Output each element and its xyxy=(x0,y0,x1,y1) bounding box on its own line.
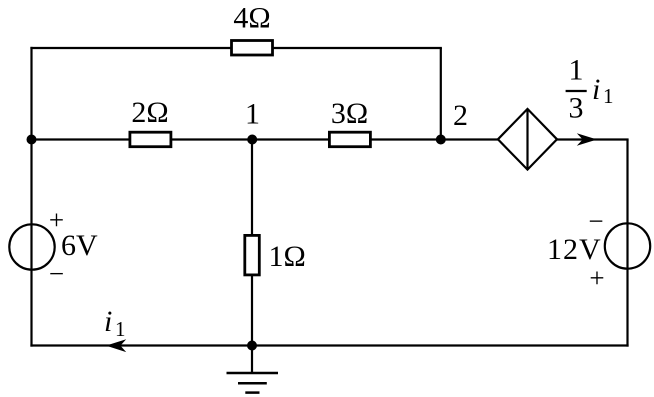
svg-text:1: 1 xyxy=(569,54,584,87)
node ground junction dot xyxy=(247,341,257,351)
wire: diamond output to right corner xyxy=(556,138,629,140)
voltage source 6V circle xyxy=(9,224,54,269)
svg-text:−: − xyxy=(49,259,64,289)
wire: left vertical xyxy=(30,47,32,347)
node 2 dot xyxy=(436,135,446,145)
svg-text:i: i xyxy=(104,305,112,338)
ground bar 1 xyxy=(227,372,279,375)
svg-text:1Ω: 1Ω xyxy=(269,240,306,273)
wire: through 6V source xyxy=(30,224,32,269)
voltage source 12V circle xyxy=(605,223,650,268)
arrow: dependent source current direction xyxy=(577,133,597,145)
label fraction bar xyxy=(566,90,587,92)
node junction dot left xyxy=(27,135,37,145)
dependent source internal vertical line xyxy=(526,109,528,170)
node 1 dot xyxy=(247,135,257,145)
svg-text:i: i xyxy=(592,73,600,106)
resistor 1ohm xyxy=(245,235,259,275)
wire: middle horizontal xyxy=(32,138,500,140)
svg-text:−: − xyxy=(588,206,603,236)
ground bar 2 xyxy=(238,382,267,385)
dependent current source U1 diamond xyxy=(498,109,557,170)
svg-text:+: + xyxy=(589,263,604,293)
arrow: i1 current direction on bottom wire xyxy=(106,339,126,352)
svg-text:4Ω: 4Ω xyxy=(233,2,270,35)
wire: top horizontal xyxy=(30,47,442,49)
svg-text:1: 1 xyxy=(245,98,260,131)
svg-text:2Ω: 2Ω xyxy=(131,96,168,129)
svg-text:2: 2 xyxy=(453,99,468,132)
wire: right vertical xyxy=(626,140,628,347)
svg-text:1: 1 xyxy=(115,317,126,341)
wire: center vertical xyxy=(251,140,253,346)
resistor 4ohm xyxy=(232,41,273,56)
svg-text:6V: 6V xyxy=(61,229,98,262)
resistor 2ohm xyxy=(130,132,171,147)
svg-text:1: 1 xyxy=(603,84,614,108)
svg-text:3: 3 xyxy=(569,92,584,125)
resistor 3ohm xyxy=(329,132,370,147)
ground stub wire xyxy=(251,346,253,374)
wire: through 12V source xyxy=(626,223,628,268)
wire: node 2 vertical xyxy=(440,48,442,140)
svg-text:3Ω: 3Ω xyxy=(331,97,368,130)
ground bar 3 xyxy=(245,391,259,394)
wire: bottom horizontal xyxy=(30,344,628,346)
svg-text:12V: 12V xyxy=(547,233,602,266)
